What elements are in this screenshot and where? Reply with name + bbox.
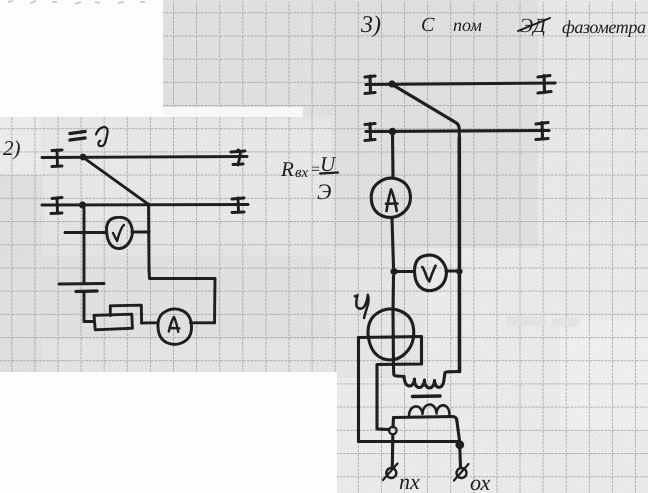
svg-text:вх: вх <box>295 165 309 181</box>
svg-text:фазометра: фазометра <box>562 17 646 37</box>
svg-text:R: R <box>280 157 294 181</box>
svg-text:Э: Э <box>317 179 331 204</box>
svg-text:С: С <box>421 14 435 36</box>
svg-text:пом: пом <box>453 15 482 35</box>
svg-text:пх: пх <box>399 469 420 493</box>
svg-text:ЭД: ЭД <box>520 15 547 37</box>
svg-text:3): 3) <box>360 12 381 38</box>
svg-text:2): 2) <box>3 136 21 160</box>
svg-text:ох: ох <box>470 470 491 493</box>
